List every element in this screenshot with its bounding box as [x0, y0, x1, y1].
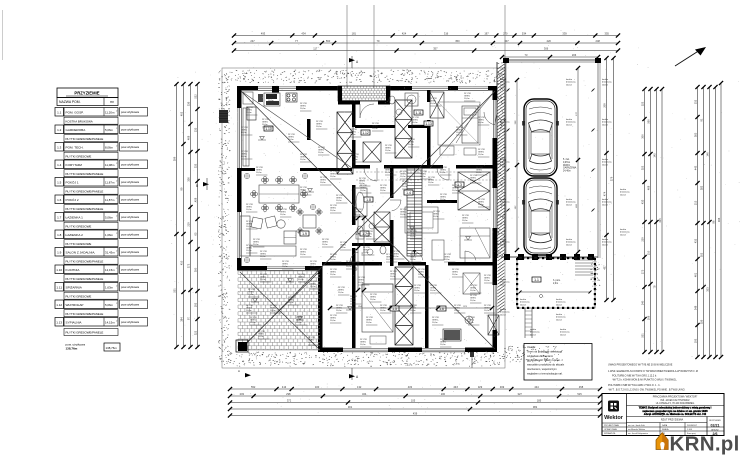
svg-text:229: 229: [641, 237, 645, 242]
svg-text:1.12: 1.12: [362, 131, 369, 135]
svg-text:kostka: kostka: [566, 118, 573, 121]
svg-text:pow.użytkowa: pow.użytkowa: [121, 145, 139, 149]
svg-text:5,06m: 5,06m: [105, 215, 114, 219]
svg-text:10,0m: 10,0m: [478, 204, 484, 206]
svg-text:534: 534: [522, 31, 527, 35]
svg-text:10,0m: 10,0m: [270, 310, 276, 312]
svg-text:552: 552: [251, 385, 256, 389]
svg-text:h. pom.: h. pom.: [553, 280, 561, 282]
svg-text:inż.Marcela Wektor: inż.Marcela Wektor: [628, 428, 645, 431]
svg-text:PŁYTKI GRESOWE/PANELE: PŁYTKI GRESOWE/PANELE: [66, 260, 104, 264]
svg-text:wszystkim produktów do aktualn: wszystkim produktów do aktualn: [527, 363, 565, 367]
svg-text:10,0m: 10,0m: [268, 100, 274, 102]
svg-text:RZUT PRZYZIEMIA: RZUT PRZYZIEMIA: [661, 419, 684, 422]
svg-text:1.10: 1.10: [265, 127, 272, 131]
svg-text:439: 439: [413, 411, 418, 415]
svg-text:INŻ. JACEK FALTYNOWICZ: INŻ. JACEK FALTYNOWICZ: [660, 399, 690, 402]
svg-text:10,0m: 10,0m: [370, 299, 376, 301]
svg-text:240: 240: [641, 300, 645, 305]
svg-text:kostka: kostka: [530, 328, 537, 331]
svg-text:10,0m: 10,0m: [360, 344, 366, 346]
svg-text:PRACOWNIA PROJEKTOWA "WEKTOR": PRACOWNIA PROJEKTOWA "WEKTOR": [653, 396, 698, 399]
svg-text:1.1: 1.1: [534, 278, 539, 282]
svg-text:drewniana: drewniana: [602, 241, 612, 244]
svg-text:10,0m: 10,0m: [470, 180, 476, 182]
svg-text:10,0m: 10,0m: [390, 276, 396, 278]
svg-text:kostka: kostka: [500, 308, 507, 311]
svg-text:drewniana: drewniana: [620, 231, 630, 234]
svg-text:10,0m: 10,0m: [430, 290, 436, 292]
svg-text:14x14: 14x14: [556, 304, 563, 306]
svg-text:10,0m: 10,0m: [432, 322, 438, 324]
svg-text:324: 324: [362, 392, 367, 396]
svg-text:185: 185: [537, 398, 542, 402]
svg-text:11,87m: 11,87m: [105, 198, 115, 202]
svg-text:348: 348: [694, 305, 698, 310]
svg-text:2,0m: 2,0m: [553, 283, 558, 285]
svg-text:1.WSZ. ELEMENTA.N.KONSTR.O TW.: 1.WSZ. ELEMENTA.N.KONSTR.O TW.WKM.OBIEKT…: [608, 370, 698, 373]
svg-text:10,0m: 10,0m: [300, 254, 306, 256]
svg-text:PŁYTKI GRESOWE/PANELE: PŁYTKI GRESOWE/PANELE: [66, 277, 104, 281]
svg-text:333: 333: [194, 163, 198, 168]
svg-text:kostka: kostka: [602, 238, 609, 241]
svg-text:1,06m: 1,06m: [105, 233, 114, 237]
svg-text:2: 2: [116, 286, 117, 288]
svg-text:10,0m: 10,0m: [316, 126, 322, 128]
svg-text:10,0m: 10,0m: [430, 103, 436, 105]
svg-text:pow.użytkowa: pow.użytkowa: [121, 180, 139, 184]
svg-text:WIATROŁAP: WIATROŁAP: [66, 303, 84, 307]
svg-text:2: 2: [116, 251, 117, 253]
svg-text:POLITURB.O NIB.WYT.NA.GRB.1 TW: POLITURB.O NIB.WYT.NA.GRB.1 TW.N.O. 1 . …: [608, 384, 661, 387]
svg-text:PŁYTKI GRESOWE/PANELE: PŁYTKI GRESOWE/PANELE: [66, 190, 104, 194]
svg-text:1.6: 1.6: [57, 198, 62, 202]
svg-text:145: 145: [653, 153, 657, 158]
svg-text:POLITURB.O NIB.WYT.NA.GRG.1.12: POLITURB.O NIB.WYT.NA.GRG.1.12,2 b.: [612, 375, 657, 378]
svg-text:1.1: 1.1: [57, 111, 62, 115]
svg-text:10,0m: 10,0m: [456, 132, 462, 134]
svg-text:pow.użytkowa: pow.użytkowa: [121, 215, 139, 219]
svg-text:14x14: 14x14: [500, 284, 507, 286]
svg-text:10,0m: 10,0m: [280, 214, 286, 216]
svg-text:5,06m: 5,06m: [105, 128, 114, 132]
svg-text:10,0m: 10,0m: [360, 190, 366, 192]
svg-text:14x14: 14x14: [602, 204, 609, 206]
svg-text:kostka: kostka: [566, 198, 573, 201]
svg-text:209: 209: [603, 103, 607, 108]
svg-text:inż. inż. Jacek Falt.: inż. inż. Jacek Falt.: [628, 424, 645, 427]
svg-text:kostka: kostka: [620, 188, 627, 191]
svg-text:PŁYTKI GRESOWE/PANELE: PŁYTKI GRESOWE/PANELE: [66, 172, 104, 176]
svg-text:SYPIALNIA: SYPIALNIA: [66, 320, 83, 324]
svg-text:551: 551: [641, 333, 645, 338]
svg-text:NR RYSUNKU: NR RYSUNKU: [709, 420, 722, 422]
svg-text:10,0m: 10,0m: [330, 259, 336, 261]
svg-text:14x14: 14x14: [500, 124, 507, 126]
svg-text:drewniana: drewniana: [566, 121, 576, 124]
svg-text:10,0m: 10,0m: [386, 259, 392, 261]
svg-text:10,0m: 10,0m: [402, 186, 408, 188]
svg-text:kostka: kostka: [500, 118, 507, 121]
svg-text:NAZWA POM.: NAZWA POM.: [59, 100, 81, 104]
svg-text:8,06m: 8,06m: [105, 145, 114, 149]
svg-text:336: 336: [187, 101, 191, 106]
svg-text:415: 415: [658, 218, 662, 223]
svg-text:322: 322: [194, 330, 198, 335]
svg-text:197: 197: [484, 31, 489, 35]
svg-text:drewniana: drewniana: [500, 281, 510, 284]
svg-text:357: 357: [433, 46, 438, 50]
svg-text:10,0m: 10,0m: [300, 159, 306, 161]
svg-text:1.13: 1.13: [425, 122, 432, 126]
svg-text:132: 132: [357, 385, 362, 389]
svg-text:306: 306: [544, 46, 549, 50]
svg-text:1.4: 1.4: [406, 191, 411, 195]
svg-text:10,0m: 10,0m: [260, 256, 266, 258]
svg-text:10,0m: 10,0m: [246, 310, 252, 312]
svg-text:413: 413: [282, 385, 287, 389]
svg-text:138,76m: 138,76m: [106, 346, 118, 350]
svg-text:kostka: kostka: [602, 78, 609, 81]
svg-text:A: A: [238, 369, 240, 373]
svg-text:drewniana: drewniana: [602, 201, 612, 204]
svg-text:432: 432: [694, 238, 698, 243]
svg-text:1.11: 1.11: [56, 286, 62, 290]
svg-text:10,0m: 10,0m: [298, 279, 304, 281]
svg-text:458: 458: [579, 385, 584, 389]
svg-text:100: 100: [315, 385, 320, 389]
svg-text:10,0m: 10,0m: [330, 176, 336, 178]
svg-text:10,0m: 10,0m: [433, 216, 439, 218]
svg-text:drewniana: drewniana: [556, 316, 566, 319]
svg-text:384: 384: [180, 317, 184, 322]
svg-text:14x14: 14x14: [620, 234, 627, 236]
svg-text:10,0m: 10,0m: [478, 122, 484, 124]
svg-text:PŁYTKI GRESOWE/PANELE: PŁYTKI GRESOWE/PANELE: [66, 137, 104, 141]
svg-text:10,0m: 10,0m: [420, 176, 426, 178]
svg-text:10,0m: 10,0m: [310, 266, 316, 268]
svg-text:względem o termoizolacja mał.: względem o termoizolacja mał.: [527, 371, 563, 375]
svg-text:kostka: kostka: [520, 298, 527, 301]
svg-text:117: 117: [313, 46, 318, 50]
svg-text:14x14: 14x14: [500, 314, 507, 316]
svg-text:10,0m: 10,0m: [256, 172, 262, 174]
svg-text:drewniana: drewniana: [500, 121, 510, 124]
svg-text:KUCHNIA: KUCHNIA: [66, 268, 81, 272]
svg-text:kostka: kostka: [602, 198, 609, 201]
svg-text:14x14: 14x14: [500, 84, 507, 86]
svg-text:350: 350: [455, 39, 460, 43]
svg-text:208: 208: [647, 315, 651, 320]
svg-text:10,0m: 10,0m: [462, 220, 468, 222]
svg-text:KORYTARZ: KORYTARZ: [66, 163, 83, 167]
svg-text:382: 382: [533, 405, 538, 409]
svg-text:373: 373: [187, 263, 191, 268]
svg-text:kostka: kostka: [500, 158, 507, 161]
svg-text:14x14: 14x14: [520, 304, 527, 306]
svg-text:PŁYTKI GRESOWE: PŁYTKI GRESOWE: [66, 225, 92, 229]
svg-text:kostka: kostka: [566, 238, 573, 241]
svg-text:drewniana: drewniana: [620, 191, 630, 194]
svg-text:drewniana: drewniana: [500, 161, 510, 164]
svg-text:14x14: 14x14: [500, 164, 507, 166]
svg-text:UWAGI PROJEKTOWEGO WYTYB.NE 30: UWAGI PROJEKTOWEGO WYTYB.NE 30 B.W WELIC…: [608, 364, 673, 367]
svg-text:14x14: 14x14: [602, 164, 609, 166]
svg-text:365: 365: [694, 132, 698, 137]
svg-text:10,0m: 10,0m: [308, 342, 314, 344]
svg-text:kostka: kostka: [602, 158, 609, 161]
svg-text:10,0m: 10,0m: [454, 310, 460, 312]
svg-text:14x14: 14x14: [602, 124, 609, 126]
svg-text:drewniana: drewniana: [566, 241, 576, 244]
svg-text:GARAŻOWA: GARAŻOWA: [563, 167, 577, 170]
svg-text:1.12: 1.12: [56, 303, 62, 307]
svg-text:2: 2: [116, 163, 117, 165]
svg-text:pow.użytkowa: pow.użytkowa: [121, 198, 139, 202]
svg-text:10,0m: 10,0m: [258, 336, 264, 338]
svg-text:B: B: [196, 184, 198, 188]
svg-text:PŁYTKI GRESOWE/PANELE: PŁYTKI GRESOWE/PANELE: [66, 312, 104, 316]
svg-text:515: 515: [577, 392, 582, 396]
svg-text:11,08m: 11,08m: [105, 163, 115, 167]
svg-text:otoczeniem, wsporniczym: otoczeniem, wsporniczym: [527, 367, 557, 371]
svg-text:468: 468: [187, 135, 191, 140]
svg-text:/obręb JASTRZĘB. m. Niwtomie m: /obręb JASTRZĘB. m. Niwtomie m. SOŁECTS …: [644, 413, 707, 416]
svg-text:pow.użytkowa: pow.użytkowa: [121, 250, 139, 254]
svg-text:10,0m: 10,0m: [241, 156, 247, 158]
svg-text:drewniana: drewniana: [566, 81, 576, 84]
svg-text:PŁYTKI GRESOWE: PŁYTKI GRESOWE: [66, 155, 92, 159]
svg-text:424: 424: [402, 31, 407, 35]
svg-text:10,0m: 10,0m: [246, 209, 252, 211]
svg-text:10,0m: 10,0m: [440, 344, 446, 346]
svg-text:10,0m: 10,0m: [248, 294, 254, 296]
svg-text:10,0m: 10,0m: [470, 290, 476, 292]
svg-text:kostka: kostka: [566, 78, 573, 81]
svg-text:14x14: 14x14: [560, 334, 567, 336]
svg-text:1.9: 1.9: [57, 251, 62, 255]
svg-text:10,0m: 10,0m: [310, 286, 316, 288]
svg-text:10,0m: 10,0m: [380, 190, 386, 192]
svg-text:10,0m: 10,0m: [300, 192, 306, 194]
svg-text:435: 435: [641, 199, 645, 204]
svg-text:SALON Z JADALNIĄ: SALON Z JADALNIĄ: [66, 250, 96, 254]
svg-text:302: 302: [700, 252, 704, 257]
svg-text:551: 551: [173, 288, 177, 293]
svg-text:523: 523: [641, 101, 645, 106]
svg-text:1.10: 1.10: [56, 268, 62, 272]
svg-text:399: 399: [173, 156, 177, 161]
svg-text:10,0m: 10,0m: [330, 274, 336, 276]
svg-text:drewniana: drewniana: [500, 241, 510, 244]
svg-text:327: 327: [518, 392, 523, 396]
svg-text:434: 434: [301, 31, 306, 35]
svg-text:355: 355: [605, 31, 610, 35]
svg-text:379: 379: [610, 176, 614, 181]
svg-text:10,0m: 10,0m: [400, 176, 406, 178]
svg-text:-WYT.2 b. KGHW WON.B.AN PUNK: -WYT.2 b. KGHW WON.B.AN PUNKTO.O WILK.I …: [612, 379, 677, 382]
svg-text:235: 235: [194, 127, 198, 132]
svg-text:PŁYTKI GRESOWE/PANELE: PŁYTKI GRESOWE/PANELE: [66, 331, 104, 335]
svg-text:10,0m: 10,0m: [440, 172, 446, 174]
svg-text:kostka: kostka: [556, 298, 563, 301]
svg-text:drewniana: drewniana: [560, 331, 570, 334]
svg-text:kostka: kostka: [500, 278, 507, 281]
svg-text:POM. TECH.: POM. TECH.: [66, 145, 84, 149]
svg-text:10,0m: 10,0m: [400, 214, 406, 216]
svg-text:PRZYZIEMIE: PRZYZIEMIE: [74, 91, 99, 96]
svg-text:ŁAZIENKA 1: ŁAZIENKA 1: [66, 215, 84, 219]
svg-text:DATA: DATA: [662, 424, 668, 427]
svg-text:138,76m: 138,76m: [66, 347, 78, 351]
svg-text:2: 2: [116, 146, 117, 148]
svg-text:1.7: 1.7: [57, 216, 62, 220]
svg-text:10,0m: 10,0m: [262, 124, 268, 126]
svg-text:1:100: 1:100: [687, 429, 693, 431]
svg-text:2: 2: [116, 181, 117, 183]
svg-text:pow.użytkowa: pow.użytkowa: [121, 233, 139, 237]
svg-text:5,06m: 5,06m: [105, 303, 114, 307]
svg-text:kostka: kostka: [500, 238, 507, 241]
svg-text:drewniana: drewniana: [500, 201, 510, 204]
svg-text:względem elementami: względem elementami: [527, 354, 553, 358]
svg-text:560: 560: [647, 119, 651, 124]
svg-text:2: 2: [116, 233, 117, 235]
svg-text:100: 100: [441, 392, 446, 396]
svg-text:14x14: 14x14: [556, 319, 563, 321]
svg-text:493: 493: [261, 31, 266, 35]
svg-text:10,0m: 10,0m: [350, 134, 356, 136]
svg-text:206: 206: [572, 53, 577, 57]
svg-text:10,0m: 10,0m: [452, 190, 458, 192]
svg-text:10,0m: 10,0m: [336, 200, 342, 202]
svg-text:1,63m: 1,63m: [105, 285, 114, 289]
svg-text:210: 210: [647, 250, 651, 255]
svg-text:kostka: kostka: [560, 328, 567, 331]
svg-text:10,0m: 10,0m: [478, 154, 484, 156]
svg-text:402: 402: [180, 111, 184, 116]
svg-text:434: 434: [453, 385, 458, 389]
svg-text:10,0m: 10,0m: [452, 274, 458, 276]
svg-text:POKÓJ 2: POKÓJ 2: [66, 197, 79, 202]
svg-text:2024/02/07: 2024/02/07: [687, 425, 698, 427]
svg-text:0,0%m: 0,0%m: [563, 162, 570, 164]
svg-text:356: 356: [700, 319, 704, 324]
svg-text:10,0m: 10,0m: [372, 128, 378, 130]
svg-text:POKÓJ 1: POKÓJ 1: [66, 179, 79, 184]
svg-text:2: 2: [116, 216, 117, 218]
svg-text:10,0m: 10,0m: [412, 122, 418, 124]
svg-text:10,0m: 10,0m: [340, 247, 346, 249]
svg-text:270: 270: [503, 31, 508, 35]
svg-text:215: 215: [694, 200, 698, 205]
svg-text:316: 316: [444, 31, 449, 35]
svg-text:02/21: 02/21: [711, 424, 720, 428]
svg-text:339: 339: [562, 31, 567, 35]
svg-text:drewniana: drewniana: [520, 301, 530, 304]
svg-text:461: 461: [694, 272, 698, 277]
svg-text:292: 292: [194, 302, 198, 307]
svg-text:329: 329: [478, 385, 483, 389]
svg-text:UL.KOWALA 5, 78-100 KOŁOBRZEG: UL.KOWALA 5, 78-100 KOŁOBRZEG: [656, 402, 695, 405]
svg-text:10,0m: 10,0m: [444, 259, 450, 261]
svg-text:10,0m: 10,0m: [410, 236, 416, 238]
svg-text:10,0m: 10,0m: [385, 150, 391, 152]
svg-text:181: 181: [352, 31, 357, 35]
svg-text:474: 474: [603, 191, 607, 196]
svg-text:14x14: 14x14: [530, 334, 537, 336]
svg-text:219: 219: [187, 222, 191, 227]
svg-text:kostka: kostka: [620, 228, 627, 231]
svg-text:10,0m: 10,0m: [358, 282, 364, 284]
svg-text:1.5: 1.5: [57, 181, 62, 185]
svg-text:GARDEROBA: GARDEROBA: [66, 128, 87, 132]
svg-text:PŁYTKI GRESOWE: PŁYTKI GRESOWE: [66, 242, 92, 246]
svg-text:14x14: 14x14: [602, 244, 609, 246]
svg-text:372: 372: [287, 398, 292, 402]
svg-text:1.4: 1.4: [57, 163, 62, 167]
svg-text:PŁYTKI GRESOWE: PŁYTKI GRESOWE: [66, 295, 92, 299]
svg-text:10,0m: 10,0m: [366, 322, 372, 324]
svg-text:10,0m: 10,0m: [418, 274, 424, 276]
svg-text:10,0m: 10,0m: [246, 250, 252, 252]
svg-text:WIATA: WIATA: [563, 164, 570, 167]
svg-text:12,15m: 12,15m: [105, 268, 115, 272]
svg-text:kostka: kostka: [556, 313, 563, 316]
svg-text:profilowanym! Należy upewn. z: profilowanym! Należy upewn. z: [527, 358, 563, 362]
svg-text:14x14: 14x14: [566, 244, 573, 246]
svg-text:SPRAWDZIŁ: SPRAWDZIŁ: [604, 432, 616, 435]
svg-text:ŁAZIENKA 2: ŁAZIENKA 2: [66, 233, 84, 237]
svg-text:10,0m: 10,0m: [484, 310, 490, 312]
svg-text:433: 433: [408, 385, 413, 389]
svg-text:1.8: 1.8: [57, 233, 62, 237]
svg-text:11,20m: 11,20m: [105, 110, 115, 114]
svg-text:10,0m: 10,0m: [241, 132, 247, 134]
svg-text:PROJEKTOWAŁ: PROJEKTOWAŁ: [604, 424, 620, 427]
svg-text:10,0m: 10,0m: [484, 280, 490, 282]
svg-text:14x14: 14x14: [566, 84, 573, 86]
svg-text:drewniana: drewniana: [500, 81, 510, 84]
svg-text:203: 203: [240, 392, 245, 396]
svg-text:POM. GOSP.: POM. GOSP.: [66, 110, 84, 114]
svg-text:10,0m: 10,0m: [468, 322, 474, 324]
svg-text:31,43m: 31,43m: [105, 250, 115, 254]
svg-text:10,0m: 10,0m: [282, 266, 288, 268]
svg-text:10,0m: 10,0m: [464, 98, 470, 100]
svg-text:10,0m: 10,0m: [428, 182, 434, 184]
svg-text:532: 532: [694, 99, 698, 104]
svg-text:468: 468: [647, 185, 651, 190]
svg-text:kostka: kostka: [602, 118, 609, 121]
svg-text:1.2: 1.2: [57, 128, 62, 132]
svg-text:458: 458: [194, 197, 198, 202]
svg-text:drewniana: drewniana: [500, 311, 510, 314]
svg-text:2: 2: [116, 128, 117, 130]
svg-text:kostka: kostka: [500, 78, 507, 81]
svg-text:10,0m: 10,0m: [410, 310, 416, 312]
svg-text:353: 353: [706, 287, 710, 292]
svg-text:10,0m: 10,0m: [322, 244, 328, 246]
svg-text:10,0m: 10,0m: [346, 266, 352, 268]
svg-text:5. ziel.: 5. ziel.: [563, 159, 570, 161]
svg-text:10,0m: 10,0m: [414, 290, 420, 292]
svg-text:10,0m: 10,0m: [352, 159, 358, 161]
svg-text:10,0m: 10,0m: [253, 244, 259, 246]
svg-text:444: 444: [534, 385, 539, 389]
svg-text:PŁYTKI GRESOWE/PANELE: PŁYTKI GRESOWE/PANELE: [66, 207, 104, 211]
svg-text:1.8: 1.8: [366, 198, 371, 202]
